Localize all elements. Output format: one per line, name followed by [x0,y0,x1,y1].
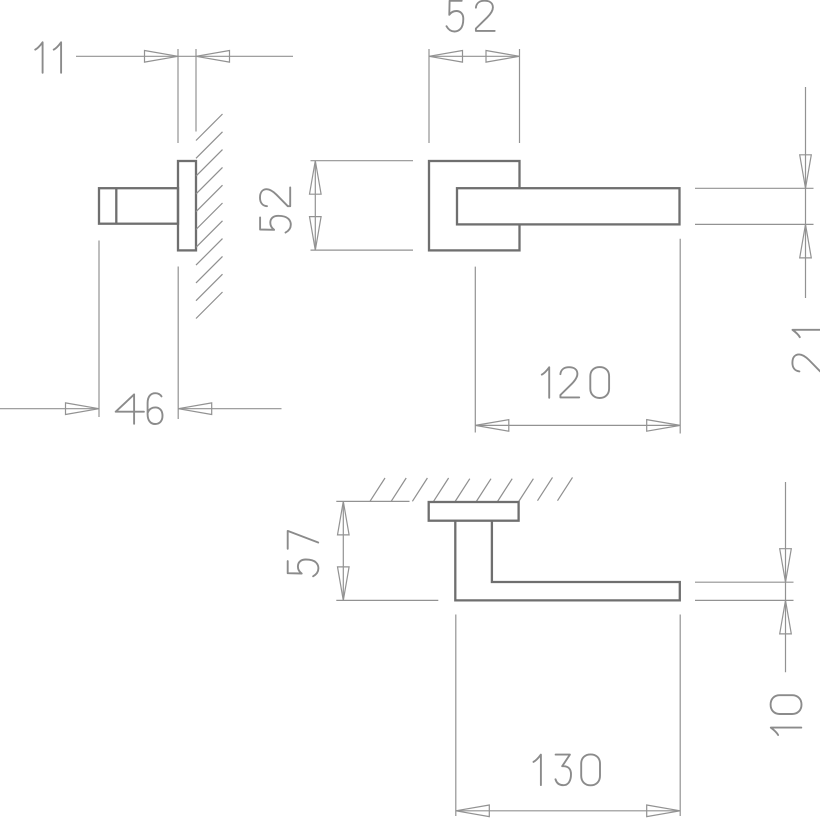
dim 11: value label "11" [35,42,61,73]
top view: door hatching [370,477,573,502]
dim 10: extension line bottom [695,599,794,601]
dim 52 top: dimension line [429,55,520,57]
dim 21: extension line top [695,187,814,189]
dim 46: dimension line right segment [178,408,281,410]
dim 21: extension line bottom [695,223,814,225]
top view: handle L-profile [455,521,680,601]
dim 120: arrow left (points left) [475,420,509,432]
dim 21: arrow top (points down) [800,155,812,189]
dim 130: value label "130" [534,754,601,785]
dim 120: dimension line [475,424,680,426]
dim 11: dimension line [76,55,293,57]
dim 10: dimension line [785,482,787,672]
dim 120: arrow right (points right) [647,420,681,432]
side view: lever stub body [99,188,178,224]
dim 11: extension line right [195,49,197,132]
dim 130: arrow right (points right) [647,805,681,817]
dim 21: value label "21" rotated [792,330,820,372]
dim 52 left: extension line top [311,160,414,162]
dim 10: extension line top [695,581,794,583]
front view: rosette square [429,161,520,250]
dim 52 top: extension line right [519,49,521,143]
dim 57: extension line bottom [336,599,438,601]
dim 120: extension line left [474,267,476,433]
dim 52 left: dimension line [314,161,316,250]
dim 130: extension line right [679,615,681,817]
dim 57: value label "57" rotated [288,531,319,576]
dim 46: arrow left (points right) [66,403,100,415]
dim 46: dimension line left segment [0,408,99,410]
dim 130: arrow left (points left) [456,805,490,817]
dim 46: value label "46" [116,393,163,424]
top view: rosette plate [429,502,519,521]
dim 120: extension line right [679,239,681,434]
dim 52 left: extension line bottom [311,249,414,251]
dim 57: extension line top [336,500,409,502]
dim 120: value label "120" [542,367,609,398]
dim 10: value label "10" rotated [771,695,802,735]
dim 52 top: arrow left (points left) [429,51,463,63]
dim 46: arrow right (points left) [178,403,212,415]
dim 52 left: arrow top (points up) [310,161,322,195]
dim 52 top: value label "52" [447,1,495,32]
side view: rosette plate [178,161,196,250]
dim 130: extension line left [455,615,457,817]
dim 11: arrow right (points left) [196,51,230,63]
dim 52 top: arrow right (points right) [486,51,520,63]
dim 52 left: value label "52" rotated [260,187,291,232]
dim 10: arrow top (points down) [780,549,792,583]
dim 130: dimension line [456,810,680,812]
front view: lever arm [457,188,680,224]
dim 21: dimension line [805,87,807,298]
dim 10: arrow bottom (points up) [780,600,792,634]
dim 57: arrow top (points up) [338,501,350,535]
dim 11: extension line left [177,49,179,143]
dim 21: arrow bottom (points up) [800,224,812,258]
dim 46: extension line right [177,267,179,420]
dim 52 left: arrow bottom (points down) [310,217,322,251]
side view: wall hatching [196,114,223,319]
dim 11: arrow left (points right) [145,51,179,63]
side view: lever end face line [115,188,117,224]
dim 46: extension line left [98,241,100,418]
dim 57: arrow bottom (points down) [338,567,350,601]
dim 57: dimension line [342,501,344,600]
dim 52 top: extension line left [428,49,430,143]
